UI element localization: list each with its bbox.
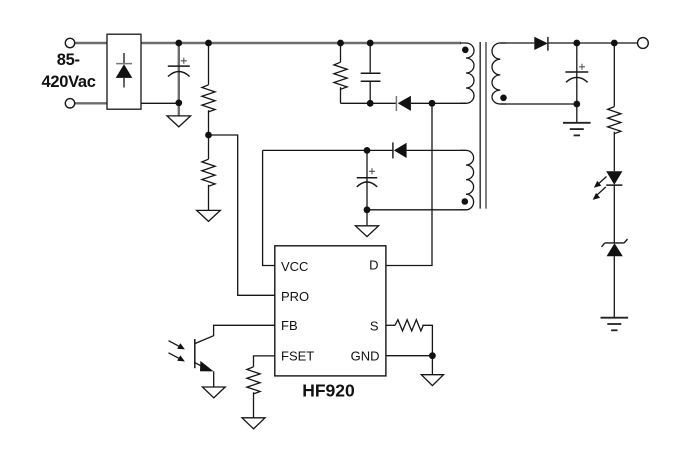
svg-text:D: D [369,257,378,272]
svg-text:GND: GND [351,348,380,363]
svg-text:VCC: VCC [281,259,308,274]
svg-text:420Vac: 420Vac [42,73,96,91]
svg-text:FSET: FSET [281,348,314,363]
svg-text:PRO: PRO [281,289,309,304]
svg-text:85-: 85- [57,51,80,69]
svg-text:FB: FB [281,318,298,333]
svg-text:HF920: HF920 [302,381,355,401]
svg-text:S: S [370,318,379,333]
